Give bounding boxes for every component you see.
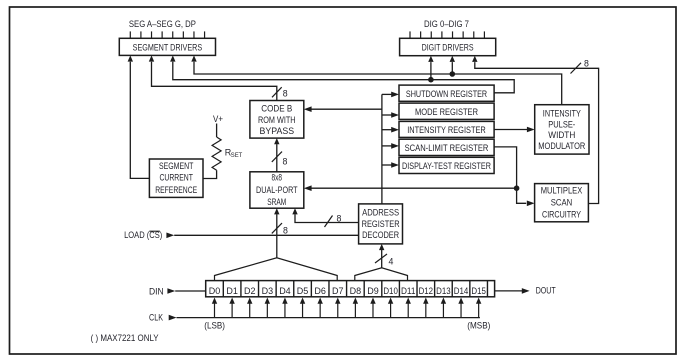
bus slash 8 below SRAM bbox=[272, 223, 288, 236]
digit drivers block U-DIG bbox=[400, 38, 496, 55]
svg-text:DIGIT DRIVERS: DIGIT DRIVERS bbox=[422, 43, 474, 54]
wire scan-limit register to multiplex scan bbox=[494, 147, 534, 206]
wire multiplex scan output bus to digit drivers (8) bbox=[472, 56, 598, 204]
svg-text:V+: V+ bbox=[213, 114, 223, 124]
svg-text:8: 8 bbox=[337, 213, 342, 223]
svg-text:SEG A–SEG G, DP: SEG A–SEG G, DP bbox=[129, 19, 196, 30]
svg-text:INTENSITY REGISTER: INTENSITY REGISTER bbox=[407, 125, 486, 136]
shutdown register block bbox=[399, 85, 494, 101]
svg-text:CIRCUITRY: CIRCUITRY bbox=[542, 209, 581, 219]
wire bus branch into display-test register bbox=[382, 162, 399, 168]
wire current reference to segment drivers bbox=[128, 55, 150, 178]
svg-text:8: 8 bbox=[584, 58, 589, 68]
wire LOAD to decoder bbox=[166, 233, 358, 239]
wire data funnel D0-D7 to SRAM (8) bbox=[274, 208, 279, 258]
label (LSB) bbox=[204, 321, 225, 331]
svg-text:SCAN: SCAN bbox=[551, 197, 573, 207]
svg-text:DIG 0–DIG 7: DIG 0–DIG 7 bbox=[424, 19, 469, 30]
wire V+ to resistor bbox=[216, 124, 218, 138]
wire decoder data to SRAM (8) bbox=[292, 208, 358, 222]
bus slash 8 between SRAM and ROM bbox=[272, 152, 288, 167]
input LOAD (CS-bar) bbox=[124, 230, 162, 240]
svg-text:D2: D2 bbox=[244, 285, 256, 296]
svg-text:D14: D14 bbox=[454, 285, 469, 296]
funnel collector D0-D7 bbox=[215, 258, 338, 281]
input DIN bbox=[149, 287, 206, 297]
mode register block bbox=[399, 103, 494, 119]
svg-text:D10: D10 bbox=[383, 285, 398, 296]
svg-text:DISPLAY-TEST REGISTER: DISPLAY-TEST REGISTER bbox=[402, 161, 491, 172]
svg-text:SRAM: SRAM bbox=[267, 197, 286, 207]
bus slash 4 bbox=[375, 254, 394, 266]
svg-text:D11: D11 bbox=[401, 285, 416, 296]
junction dot shutdown line to digit drivers bbox=[428, 56, 434, 83]
svg-text:D3: D3 bbox=[262, 285, 274, 296]
junction dot PWM line to digit drivers bbox=[450, 56, 456, 77]
wire bus branch into scan-limit register bbox=[382, 143, 399, 149]
svg-text:DUAL-PORT: DUAL-PORT bbox=[256, 185, 298, 195]
svg-text:D5: D5 bbox=[297, 285, 309, 296]
16-bit shift register D0-D15 bbox=[206, 281, 495, 297]
scan-limit register block bbox=[399, 139, 494, 155]
svg-text:D8: D8 bbox=[350, 285, 362, 296]
intensity pulse-width modulator block bbox=[535, 105, 589, 154]
svg-text:MODE REGISTER: MODE REGISTER bbox=[415, 107, 478, 118]
svg-text:SET: SET bbox=[231, 152, 243, 159]
svg-text:D7: D7 bbox=[332, 285, 344, 296]
wire address funnel D8-D11 to decoder (4) bbox=[379, 244, 384, 268]
digit output ticks (8 wires) bbox=[410, 31, 484, 38]
input CLK bbox=[149, 312, 480, 322]
svg-text:( ) MAX7221 ONLY: ( ) MAX7221 ONLY bbox=[91, 333, 159, 343]
svg-text:CODE B: CODE B bbox=[261, 103, 292, 113]
svg-text:ROM WITH: ROM WITH bbox=[258, 115, 296, 125]
svg-text:MODULATOR: MODULATOR bbox=[538, 141, 585, 151]
wire intensity register to PWM bbox=[494, 127, 535, 133]
8x8 dual-port SRAM block bbox=[250, 172, 304, 208]
svg-text:D9: D9 bbox=[367, 285, 379, 296]
junction dot scan line bbox=[514, 185, 520, 191]
svg-text:BYPASS: BYPASS bbox=[260, 126, 295, 136]
bus slash 8 on decoder-SRAM wire bbox=[325, 213, 342, 227]
svg-text:4: 4 bbox=[389, 256, 394, 266]
svg-text:D15: D15 bbox=[471, 285, 486, 296]
wire bus branch into intensity register bbox=[382, 127, 399, 133]
wire SRAM to ROM bus (8) bbox=[274, 138, 279, 172]
svg-text:8x8: 8x8 bbox=[272, 173, 283, 183]
multiplex scan circuitry block bbox=[535, 184, 589, 222]
resistor RSET bbox=[212, 137, 221, 170]
wire bus branch into shutdown register bbox=[382, 92, 399, 98]
svg-text:D6: D6 bbox=[314, 285, 326, 296]
wire shutdown register output to segment and digit drivers bbox=[170, 55, 514, 92]
svg-text:8: 8 bbox=[283, 88, 288, 98]
address register decoder block bbox=[359, 204, 403, 244]
wire bus branch into mode register bbox=[382, 112, 399, 118]
segment drivers block U-SEG bbox=[119, 38, 215, 55]
svg-text:SEGMENT DRIVERS: SEGMENT DRIVERS bbox=[133, 43, 203, 54]
svg-text:SEGMENT: SEGMENT bbox=[159, 161, 194, 171]
svg-text:(MSB): (MSB) bbox=[467, 321, 490, 331]
intensity register block bbox=[399, 121, 494, 137]
output DOUT bbox=[495, 286, 556, 296]
wire scan line to SRAM bbox=[304, 185, 517, 191]
svg-text:D1: D1 bbox=[226, 285, 238, 296]
svg-text:CURRENT: CURRENT bbox=[159, 173, 193, 183]
label (MSB) bbox=[467, 321, 490, 331]
clock arrows into shift register cells bbox=[212, 298, 482, 318]
segment current reference block bbox=[149, 159, 203, 197]
svg-text:(LSB): (LSB) bbox=[204, 321, 225, 331]
svg-text:ADDRESS: ADDRESS bbox=[362, 207, 399, 217]
svg-text:REFERENCE: REFERENCE bbox=[155, 185, 197, 195]
svg-text:WIDTH: WIDTH bbox=[548, 130, 575, 140]
svg-text:MULTIPLEX: MULTIPLEX bbox=[541, 185, 583, 195]
svg-text:D12: D12 bbox=[419, 285, 434, 296]
svg-text:DIN: DIN bbox=[149, 287, 164, 297]
wire intensity PWM output to segment and digit drivers bbox=[191, 55, 561, 104]
segment output ticks (8 wires) bbox=[130, 31, 204, 38]
wire ROM output bus to segment drivers (8) bbox=[149, 55, 277, 100]
svg-text:PULSE-: PULSE- bbox=[548, 119, 575, 129]
svg-text:CLK: CLK bbox=[149, 312, 164, 322]
svg-text:INTENSITY: INTENSITY bbox=[543, 109, 581, 119]
net SEG A-SEG G, DP label bbox=[129, 19, 196, 30]
display-test register block bbox=[399, 157, 494, 173]
code B ROM with bypass block bbox=[250, 101, 304, 139]
svg-text:8: 8 bbox=[283, 157, 288, 167]
svg-text:D0: D0 bbox=[209, 285, 221, 296]
label RSET bbox=[225, 147, 243, 159]
funnel collector D8-D11 bbox=[355, 268, 408, 281]
bus slash 8 above ROM bbox=[272, 87, 288, 98]
bus slash 8 top right bbox=[571, 58, 589, 73]
wire resistor to current reference bbox=[203, 170, 217, 178]
svg-text:D4: D4 bbox=[279, 285, 291, 296]
wire mode/decode select to ROM bbox=[304, 106, 382, 112]
node V+ supply bbox=[213, 114, 223, 124]
note MAX7221 only bbox=[91, 333, 159, 343]
svg-text:DOUT: DOUT bbox=[536, 286, 556, 296]
net DIG 0-DIG 7 label bbox=[424, 19, 469, 30]
svg-text:DECODER: DECODER bbox=[362, 230, 399, 240]
svg-text:REGISTER: REGISTER bbox=[362, 219, 400, 229]
svg-text:D13: D13 bbox=[436, 285, 451, 296]
svg-text:8: 8 bbox=[283, 226, 288, 236]
svg-text:SHUTDOWN REGISTER: SHUTDOWN REGISTER bbox=[406, 89, 487, 100]
wire register-select bus vertical from address decoder bbox=[381, 94, 383, 203]
svg-text:SCAN-LIMIT REGISTER: SCAN-LIMIT REGISTER bbox=[405, 143, 489, 154]
